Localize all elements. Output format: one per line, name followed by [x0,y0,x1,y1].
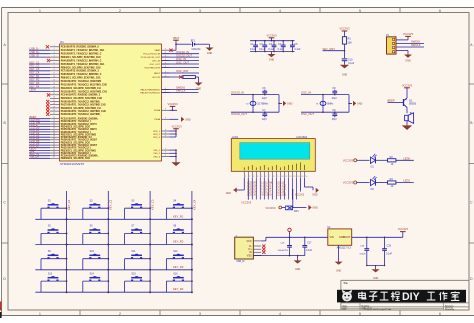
svg-text:20pf: 20pf [332,97,337,100]
svg-text:PC14-OSC32_IN: PC14-OSC32_IN [143,54,160,56]
junction VBAT node [175,43,177,45]
svg-text:VCC3V3: VCC3V3 [339,27,350,31]
svg-text:GND: GND [287,103,293,106]
svg-text:KEY_R4: KEY_R4 [30,84,40,88]
svg-text:KEY_C2: KEY_C2 [30,64,40,68]
wire VDD bus [170,130,177,137]
svg-text:3: 3 [53,52,54,54]
svg-text:0.1uF: 0.1uF [268,48,275,51]
svg-text:LED0: LED0 [403,156,410,160]
svg-text:7: 7 [53,66,54,68]
svg-text:OSC_IN: OSC_IN [301,91,311,95]
U1 left pin stubs and pin numbers [50,45,60,159]
svg-text:2: 2 [119,312,121,316]
svg-text:OSC_IN: OSC_IN [152,60,161,62]
crystal Y2 32.768kHz [246,94,269,113]
ground GND at LCD BLK [304,178,319,197]
ground GND at output caps [372,265,380,279]
svg-text:PA31/USART3_TX/ADC12_IN15/T: PA31/USART3_TX/ADC12_IN15/T [61,144,98,147]
svg-text:PA13/USART1_TX/ADC12_IN13/TIM3: PA13/USART1_TX/ADC12_IN13/TIM3_CH1 [61,90,108,93]
svg-text:VDDA: VDDA [154,109,161,112]
svg-text:OSC32_IN: OSC32_IN [231,91,244,95]
svg-text:File:: File: [343,309,347,311]
wire OSC_IN with net label [162,57,200,61]
svg-text:37: 37 [53,157,55,159]
svg-text:9: 9 [165,49,166,51]
svg-text:USB_D-: USB_D- [30,47,39,51]
power port VCC3V3 at regulator output [398,227,409,232]
svg-text:PB18/I2C0_SCL/SPI0_SCK/TIM2_CH: PB18/I2C0_SCL/SPI0_SCK/TIM2_CH [61,108,101,110]
svg-text:4: 4 [53,56,54,58]
wire LED1 net label [396,179,414,183]
wire LCD BLA to VCC3V3 [295,178,305,197]
svg-text:LCD1: LCD1 [232,135,239,139]
svg-text:USB_ID: USB_ID [30,53,39,57]
svg-text:15: 15 [53,93,55,95]
svg-text:0.1uF: 0.1uF [306,249,313,252]
svg-text:KEY_C1: KEY_C1 [67,199,71,210]
svg-text:9: 9 [165,132,166,134]
wire LCD VDD to VCC3V3 [241,178,252,205]
no-ERC cross on VBAT pin [169,49,172,52]
svg-text:9: 9 [165,118,166,120]
svg-text:GND: GND [336,270,342,273]
capacitor C17 0.1uF [302,237,312,256]
ground GND at buzzer [402,125,412,130]
svg-text:OSC_OUT: OSC_OUT [149,64,160,66]
svg-text:14: 14 [297,176,299,178]
svg-text:GND: GND [405,59,411,62]
svg-text:PA19/USART3_TX/ADC12_IN3/TIM4_: PA19/USART3_TX/ADC12_IN3/TIM4_CH3 [61,110,107,113]
svg-text:OSC_RST: OSC_RST [176,69,189,73]
no-ERC cross column (boot/vss pins) [46,100,49,116]
crystal Y1 8MHz [316,94,334,113]
pushbutton S13 [41,272,67,292]
USB connector J1 [235,235,254,259]
wire crystal right bus [348,95,350,113]
power port VCC3V3 at VDDA [167,102,178,111]
no-ERC cross on BOOT0 wire [179,75,182,78]
capacitor C10 0.1uF [342,58,355,64]
resistor R1 10K [342,37,352,58]
battery BT1 CR1220 [191,39,206,51]
svg-text:PB36/I2C0_SCL/SPI0_SCK: PB36/I2C0_SCL/SPI0_SCK [61,158,91,160]
svg-text:PC0/USART0_RX/SDIO_D0/DMA_0: PC0/USART0_RX/SDIO_D0/DMA_0 [61,46,100,49]
svg-text:LCD1602: LCD1602 [296,135,308,139]
svg-text:23: 23 [53,120,55,122]
svg-text:PB15/I2C1_SCL/SPI0_SCK/TIM3_CH: PB15/I2C1_SCL/SPI0_SCK/TIM3_CH3 [61,98,103,100]
LED D2 [357,176,377,191]
svg-text:KEY_R2: KEY_R2 [30,77,40,81]
svg-text:100uF/25V: 100uF/25V [277,250,288,252]
svg-text:GND: GND [373,277,379,280]
capacitor C18 100uF [359,237,369,266]
svg-text:SWCLK: SWCLK [176,89,186,93]
svg-text:100uF: 100uF [359,253,366,255]
U1 right pin stubs, numbers and names [140,49,169,159]
svg-text:VSS_1: VSS_1 [153,150,161,152]
svg-text:11: 11 [53,80,55,82]
svg-text:9: 9 [165,155,166,157]
svg-text:5: 5 [53,59,54,61]
svg-text:12pf: 12pf [262,118,267,121]
svg-text:0.1uF: 0.1uF [278,48,285,51]
wire cap bank bottom bus [250,51,295,53]
svg-text:10: 10 [281,176,283,178]
ground GND at regulator [335,245,343,272]
svg-text:13: 13 [293,176,295,178]
svg-text:VDD_3: VDD_3 [153,137,161,139]
svg-text:VOUT: VOUT [343,236,350,239]
svg-text:25: 25 [53,125,55,127]
capacitor C7 12pf [262,109,267,121]
svg-text:PB27/I2C1_SCL/SPI0_SCK/TIM3: PB27/I2C1_SCL/SPI0_SCK/TIM3 [61,134,97,136]
svg-text:12pf: 12pf [262,97,267,100]
LCD pin stubs and numbers [244,171,307,178]
svg-text:KEY_C3: KEY_C3 [151,199,155,210]
wire OSC_RST with net label [162,69,200,73]
capacitor C16 100uF [277,237,291,256]
svg-text:19: 19 [53,106,55,108]
LCD1 designator [232,135,239,139]
connector P1 SWD header [386,34,396,54]
capacitor C9 20pf [332,109,337,121]
svg-text:PB3/I2C1_SCL/SPI0_SCK/TIM3_CH3: PB3/I2C1_SCL/SPI0_SCK/TIM3_CH3 [61,57,102,59]
LCD1602 label [296,135,308,139]
svg-text:USB_D+: USB_D+ [30,50,40,54]
wire 3V3 output rail [352,232,403,238]
svg-text:PA32/USART0_TX/ADC12_I: PA32/USART0_TX/ADC12_I [61,147,91,150]
net label KEY_R3 [173,265,184,269]
svg-text:KEY_R1: KEY_R1 [30,74,40,78]
svg-text:11: 11 [285,176,287,178]
svg-text:PA8/USART0_TX/ADC12_IN8/TIM3_C: PA8/USART0_TX/ADC12_IN8/TIM3_C [61,73,102,76]
pushbutton S15 [125,272,151,292]
USB_M designator [236,260,244,263]
svg-text:VSSA: VSSA [154,118,160,121]
svg-text:4: 4 [257,176,258,178]
no-ERC crosses on USB data pins [262,244,265,254]
svg-text:4: 4 [279,9,281,13]
svg-text:VCC3V3: VCC3V3 [171,124,182,128]
wire OSC32_OUT net [231,112,279,116]
svg-text:18: 18 [53,103,55,105]
svg-text:VSS: VSS [247,254,252,257]
svg-text:S15: S15 [131,272,136,275]
title block frame [341,280,469,310]
wire KEY_RST net label [323,47,346,52]
capacitor C6 12pf [262,87,267,100]
wire VBAT rail [170,44,192,50]
pushbutton S11 [125,250,151,270]
svg-text:OSC_OUT: OSC_OUT [176,60,189,64]
svg-text:VCC3V3: VCC3V3 [398,227,409,231]
svg-text:BT1: BT1 [191,39,196,42]
wire OSC_OUT net [301,112,349,116]
svg-text:S12: S12 [173,250,178,253]
svg-text:PA20/USART0_TX/ADC12_IN4/TIM0_: PA20/USART0_TX/ADC12_IN4/TIM0_ [61,113,102,116]
power port VCC3V3 at VDD pins [171,124,182,137]
power port VCC3V3 at P1 [396,32,414,40]
ground GND at VSS pins [171,162,180,166]
pushbutton S10 [83,250,109,270]
svg-text:0.1uF: 0.1uF [386,252,393,255]
ground GND below cap bank [268,52,276,62]
ground GND at crystal [349,101,363,106]
LED D1 [357,154,377,169]
svg-text:OSC32_IN: OSC32_IN [176,50,189,54]
svg-text:PB9/I2C1_SCL/SPI0_SCK/TIM1_CH1: PB9/I2C1_SCL/SPI0_SCK/TIM1_CH1 [61,78,102,80]
U1 left net wires group 3 (LCD bus) [29,115,50,159]
svg-text:VDD_2: VDD_2 [153,134,161,136]
capacitor C3 0.1uF [268,40,276,52]
svg-text:KEY_R3: KEY_R3 [30,81,40,85]
svg-text:5: 5 [359,9,361,13]
svg-text:6: 6 [53,62,54,64]
ground GND at VSSA [170,117,191,122]
pushbutton S14 [83,272,109,292]
svg-text:35: 35 [53,151,55,153]
svg-text:LED1: LED1 [403,179,410,183]
net label KEY_C4 [192,199,196,210]
LCD screen area [240,143,310,160]
ground GND at reset cap [340,65,349,77]
svg-text:RP1: RP1 [294,210,299,213]
pushbutton S6 [83,225,109,245]
svg-text:4: 4 [279,312,281,316]
svg-text:14: 14 [53,90,55,92]
wire OSC32_OUT with net label [162,53,200,57]
keypad column lines KEY_C1-C4 [67,191,192,292]
no-ERC cross above group 2 [47,59,50,62]
pushbutton S9 [41,250,67,270]
svg-text:0.1uF: 0.1uF [250,48,257,51]
svg-text:KEY_RST: KEY_RST [323,47,336,51]
resistor R2 1K [376,156,396,166]
svg-text:VCC: VCC [247,240,252,243]
transistor Q1 S8550 [404,98,417,108]
svg-text:VIN: VIN [330,236,334,239]
svg-text:S14: S14 [90,272,95,275]
LCD module LCD1 body [231,139,315,172]
svg-text:PA16/USART0_TX/ADC12_IN0/TIM1_: PA16/USART0_TX/ADC12_IN0/TIM1_ [61,100,102,103]
svg-text:15: 15 [301,176,303,178]
pushbutton S4 [166,199,192,219]
svg-text:KEY_R3: KEY_R3 [173,265,184,269]
svg-text:Title: Title [343,282,348,285]
capacitor C8 20pf [332,87,337,100]
svg-text:17: 17 [53,100,55,102]
svg-text:1: 1 [245,176,246,178]
wire output cap ground bus [366,265,385,267]
svg-text:2: 2 [53,49,54,51]
svg-text:GND: GND [295,268,301,271]
svg-text:GND: GND [226,192,232,195]
svg-text:VCC3V3: VCC3V3 [295,193,305,196]
svg-text:20: 20 [53,110,55,112]
U1 left pin name texts [61,46,108,161]
power port 5V [288,228,291,238]
net label KEY_C1 [67,199,71,210]
wire PD2 stub [162,66,200,68]
wire crystal right bus [278,95,280,113]
svg-text:S8550: S8550 [409,103,417,106]
svg-text:1K: 1K [391,163,394,166]
wire cap bank top bus [250,40,295,42]
wire SWDIO with net label [162,86,199,90]
net label KEY_R2 [173,240,184,244]
svg-text:S13: S13 [48,272,53,275]
svg-text:GND: GND [342,73,348,76]
ground GND at crystal [279,101,293,106]
svg-text:S10: S10 [90,250,95,253]
svg-text:PA5/USART1_TX/ADC12_IN5/TIM0_C: PA5/USART1_TX/ADC12_IN5/TIM0_CH1 [61,63,105,66]
svg-text:VCC3V3: VCC3V3 [343,181,354,185]
capacitor C1 0.1uF [250,40,258,52]
U1 left net wires group 1 (USB) [29,47,50,58]
svg-text:DIY: DIY [402,291,420,303]
svg-text:32.768kHz: 32.768kHz [257,103,269,105]
svg-text:16: 16 [53,97,55,99]
svg-text:PC35/USART3_RX/SDIO_D3/DMA_: PC35/USART3_RX/SDIO_D3/DMA_ [61,155,100,158]
AMS1117-3.3 label [337,246,352,249]
LCD net labels block [247,180,286,196]
svg-text:VDD_1: VDD_1 [153,131,161,133]
title block texts [343,282,456,311]
svg-text:KEY_R1: KEY_R1 [173,214,184,218]
no-ERC cross on U1 pin 1 [46,45,49,48]
svg-text:KEY_R4: KEY_R4 [173,287,184,291]
svg-text:VBAT: VBAT [154,49,160,52]
svg-text:9: 9 [165,109,166,111]
svg-text:9: 9 [277,176,278,178]
wire LED0 net label [396,156,414,160]
svg-text:0.1uF: 0.1uF [259,48,266,51]
svg-text:BOOT0: BOOT0 [153,77,161,79]
svg-text:6: 6 [439,312,441,316]
power port VCC3V3 at LED0 [343,158,357,162]
svg-text:PD2/TIM3_ETR: PD2/TIM3_ETR [145,67,161,69]
keypad junctions [66,218,193,293]
svg-text:VCC3V3: VCC3V3 [262,192,272,196]
svg-text:VBAT: VBAT [173,36,180,40]
svg-text:PA34/USART2_TX/ADC12_I: PA34/USART2_TX/ADC12_I [61,152,91,155]
power port VCC3V3 at buzzer [402,83,413,98]
power port VBAT [173,36,180,44]
svg-text:20pf: 20pf [332,118,337,121]
ground GND at BOOT0 resistor [195,77,203,91]
svg-text:GND: GND [185,118,191,121]
svg-text:PB24/I2C0_SCL/SPI0_SCK: PB24/I2C0_SCL/SPI0_SCK [61,126,91,129]
pushbutton S1 [41,199,67,219]
svg-text:2: 2 [249,176,250,178]
svg-text:TIM_CH: TIM_CH [30,155,40,159]
wire OSC32_IN net [231,91,279,95]
svg-text:C19: C19 [387,245,392,248]
svg-text:PA26/USART2_TX/ADC12_I: PA26/USART2_TX/ADC12_I [61,131,91,134]
resistor R10 on BOOT0 pin [162,76,199,79]
wire BEEP net label [388,99,404,103]
svg-text:6: 6 [439,9,441,13]
svg-text:33: 33 [53,146,55,148]
svg-text:PC21/USART1_RX/SDIO_D5/DMA_: PC21/USART1_RX/SDIO_D5/DMA_ [61,118,100,121]
svg-text:3: 3 [199,312,201,316]
svg-text:LCD_V0: LCD_V0 [247,192,257,196]
svg-text:KEY_C4: KEY_C4 [192,199,196,210]
svg-text:VCC3V3: VCC3V3 [403,32,414,36]
no-ERC cross below group 2 [47,93,50,96]
svg-text:GND: GND [312,193,318,196]
ground GND at battery [206,44,214,55]
svg-text:PA25/USART1_TX/ADC12_IN9/TI: PA25/USART1_TX/ADC12_IN9/TI [61,128,97,131]
U1 part number STM32F103VET6 [60,162,84,166]
svg-text:GND: GND [207,52,213,55]
svg-text:KEY_C3: KEY_C3 [30,67,40,71]
power port VCC3V3 at LED1 [343,181,357,185]
svg-text:S16: S16 [173,272,178,275]
svg-text:CR1220: CR1220 [192,48,201,51]
svg-text:1: 1 [39,9,41,13]
wire VSS bus [170,149,177,162]
svg-text:PA2/USART2_TX/ADC12_IN2/TIM2_C: PA2/USART2_TX/ADC12_IN2/TIM2_C [61,53,102,56]
power port VCC3V3 at reset [339,27,350,37]
resistor R3 1K [376,178,396,188]
wire OSC32_IN with net label [162,50,200,54]
svg-text:7: 7 [269,176,270,178]
net label KEY_R1 [173,214,184,218]
svg-text:OSC32_OUT: OSC32_OUT [176,53,192,57]
svg-text:VCC3V3: VCC3V3 [266,33,277,37]
svg-text:9: 9 [53,73,54,75]
wire OSC_OUT with net label [162,60,200,64]
svg-text:PA4/USART0_TX/ADC12_IN4/TIM4_C: PA4/USART0_TX/ADC12_IN4/TIM4_C [61,59,102,62]
svg-text:VCC3V3: VCC3V3 [343,158,354,162]
USB pin stubs [253,241,261,256]
svg-text:1K: 1K [391,185,394,188]
svg-text:9: 9 [165,135,166,137]
svg-text:S11: S11 [131,250,136,253]
svg-text:STM32F103VET6: STM32F103VET6 [60,162,84,166]
svg-text:PB12/I2C0_SCL/SPI0_SCK/TIM0_CH: PB12/I2C0_SCL/SPI0_SCK/TIM0_CH [61,88,101,90]
net label KEY_C2 [109,199,113,210]
svg-text:1: 1 [53,45,54,47]
svg-text:30: 30 [53,138,55,140]
svg-text:21: 21 [53,113,55,115]
svg-text:OSC_OUT: OSC_OUT [301,112,314,116]
svg-text:LCD_EN: LCD_EN [276,192,286,196]
svg-text:OSC_IN: OSC_IN [176,57,186,61]
svg-text:13: 13 [53,86,55,88]
net label KEY_R4 [173,287,184,291]
svg-text:KEY_C4: KEY_C4 [30,71,40,75]
svg-text:16: 16 [305,176,307,178]
svg-text:OSC32_OUT: OSC32_OUT [231,112,247,116]
capacitor C4 0.1uF [278,40,286,52]
svg-text:VCC3V3: VCC3V3 [265,206,276,210]
svg-text:2: 2 [119,9,121,13]
svg-text:0.1uF: 0.1uF [348,62,355,65]
wire SWCLK at P1 [396,43,424,47]
svg-text:PA17/USART1_TX/ADC12_IN1/TIM2_: PA17/USART1_TX/ADC12_IN1/TIM2_CH1 [61,104,107,107]
pushbutton S8 [166,225,192,245]
wire pot to LCD V0 [292,189,294,208]
svg-text:VSS_2: VSS_2 [153,153,161,155]
svg-text:PA11/USART3_TX/ADC12_IN11/TIM1: PA11/USART3_TX/ADC12_IN11/TIM1_CH3 [61,83,108,86]
power port VCC3V3 above cap bank [266,33,277,41]
svg-text:PA29/USART1_TX/ADC12_IN13/T: PA29/USART1_TX/ADC12_IN13/T [61,139,98,142]
regulator U2 AMS1117-3.3 [327,226,351,245]
svg-text:GND: GND [269,59,275,62]
